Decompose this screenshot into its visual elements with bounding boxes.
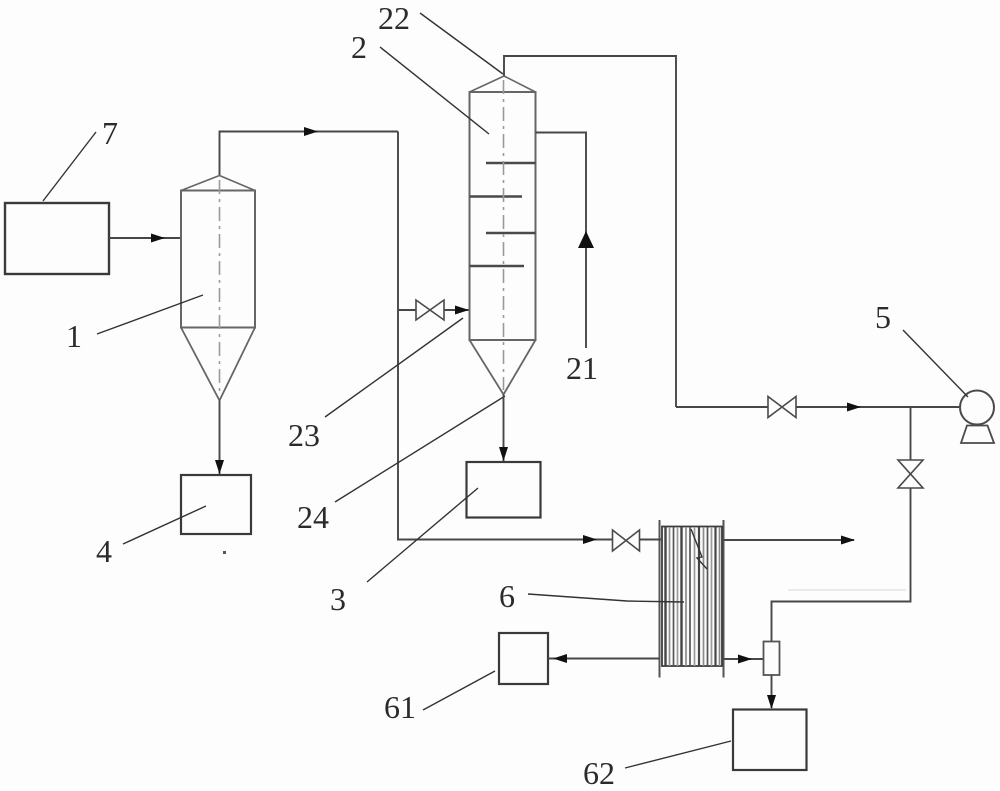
vessel 1 centerline [219,180,221,396]
svg-text:2: 2 [351,29,367,65]
label 7 leader [43,132,96,201]
pump 5 circle [960,391,994,425]
wire vessel1 top riser [220,132,399,176]
vessel 1 body [181,191,255,328]
heat exchanger right header [723,520,725,678]
svg-text:23: 23 [288,417,320,453]
svg-text:7: 7 [102,115,118,151]
arrowhead end of top outlet [841,536,855,545]
dot below box 4 [223,551,226,554]
wire column 2 top to right [504,56,676,407]
wire branch to valve 23 [398,309,416,311]
heat exchanger shell [662,527,722,667]
arrowhead into column 2 [455,306,469,315]
label 2 leader [380,47,489,134]
arrowhead into box 61 [553,654,567,663]
label 3 leader [367,488,478,582]
zigzag mark inside exchanger [691,529,707,569]
valve before exchanger [613,530,627,551]
svg-text:1: 1 [66,318,82,354]
wire down from globe valve [772,488,911,642]
wire exchanger to right arrow [724,539,855,541]
arrowhead toward pump [847,403,861,412]
label 6 leader [528,594,684,602]
trap small rect [764,642,780,676]
wire column 2 bottom outlet [503,395,505,462]
arrowhead into box 4 [215,460,224,474]
label 4 leader [123,506,206,544]
label 5 leader [903,330,968,397]
wire vessel 1 bottom outlet [219,401,221,475]
globe valve vertical [898,460,923,474]
column 2 body [470,92,536,340]
wire exchanger to trap [724,658,764,660]
svg-text:3: 3 [330,581,346,617]
faint scan ghost line [788,589,906,591]
arrowhead on top wire [304,127,318,136]
column 2 tray 2 [470,195,523,197]
wire valve to pump [676,406,768,408]
column 2 cone [470,340,536,395]
svg-text:22: 22 [378,0,410,36]
svg-text:21: 21 [566,350,598,386]
vessel 1 cone [181,328,255,401]
label 1 leader [97,295,203,334]
wire 21 [536,133,587,349]
box 62 [733,710,807,771]
box 3 [467,462,541,518]
column 2 tray 3 [486,232,536,234]
label 23 leader [325,318,463,417]
valve into column 2 [416,300,430,320]
svg-text:62: 62 [583,755,615,786]
label 62 leader [625,741,731,768]
pump 5 base [961,426,994,444]
arrowhead into box 3 [499,447,508,461]
svg-text:5: 5 [875,299,891,335]
svg-text:61: 61 [384,689,416,725]
wire down from top line [398,132,612,540]
box 7 [5,203,109,274]
wire valve to exchanger [640,539,663,541]
label 24 leader [335,396,505,502]
valve on line to pump 5 [768,397,782,418]
svg-text:24: 24 [297,499,329,535]
wire valve to column 2 [444,309,469,311]
arrowhead into box 62 [767,695,776,709]
heat exchanger tubes [666,527,720,666]
box 61 [499,633,548,684]
column 2 centerline [503,80,505,390]
arrowhead up on wire 21 [578,231,594,248]
column 2 tray 4 [470,265,525,267]
column 2 tray 1 [486,162,536,164]
wire branch down from pump line [910,407,912,460]
vessel 1 top cap [181,176,255,191]
label 61 leader [423,671,495,710]
heat exchanger left header [659,520,661,678]
label 22 leader [420,13,503,74]
wire trap to box 62 [771,675,773,708]
wire exchanger to box 61 [548,658,660,660]
arrowhead before valve [583,535,597,544]
column 2 top cap [470,76,536,92]
arrowhead into trap [738,655,752,664]
wire 7 to vessel 1 [109,237,181,239]
svg-text:4: 4 [96,533,112,569]
arrowhead into vessel 1 [151,234,165,243]
box 4 [181,475,251,534]
svg-text:6: 6 [499,578,515,614]
